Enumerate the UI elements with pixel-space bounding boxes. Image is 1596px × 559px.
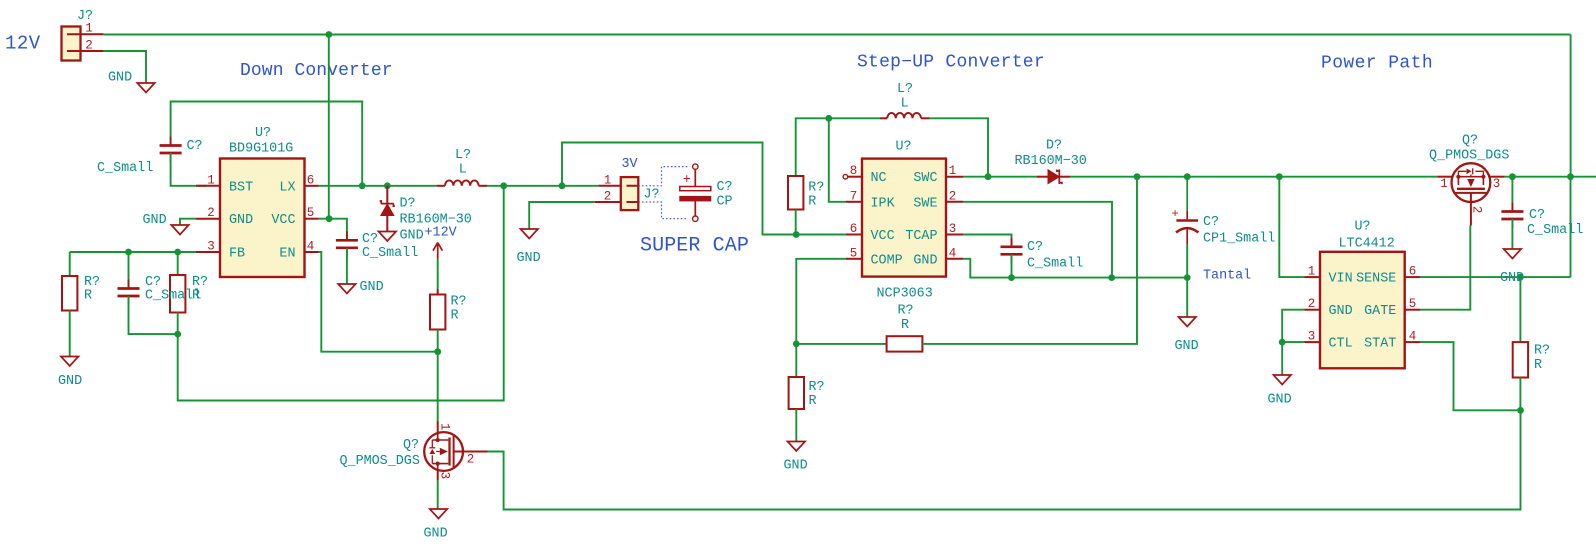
svg-text:C?: C? [187,139,203,154]
capacitor C2 C_Small [128,280,130,306]
junction LX / D1 [384,182,391,189]
wire LX output [319,185,437,187]
svg-text:C_Small: C_Small [97,161,153,176]
capacitor C5 C_Small [1011,238,1013,263]
Q2 pin 2 gate lead [1470,193,1472,226]
svg-text:R: R [808,195,816,210]
svg-text:IPK: IPK [871,196,896,211]
wire C7 top [1511,177,1513,212]
svg-text:D?: D? [1046,139,1062,154]
junction rail / C6 tantal [1184,173,1191,180]
Q2 P-MOSFET Q_PMOS_DGS body [1452,163,1491,202]
svg-text:NCP3063: NCP3063 [877,287,933,302]
U2 pin 1 SWC [946,176,963,178]
wire R4 top to inductor node [796,118,880,176]
svg-text:1: 1 [1308,265,1316,279]
svg-text:C?: C? [1027,240,1043,255]
wire L2 to SWC [930,118,988,176]
ground symbol at R6 [788,442,806,452]
Q1 pin 3 source lead [437,469,439,481]
svg-text:L?: L? [897,82,913,97]
svg-text:1: 1 [85,22,93,36]
wire R4 bottom to VCC node [795,210,797,235]
svg-text:1: 1 [207,173,215,187]
capacitor C6 CP1_Small tantal [1186,177,1188,211]
resistor R3 [430,295,445,330]
U3 pin 5 GATE [1405,309,1421,311]
junction SWC / L2 [985,173,992,180]
wire R7 top [1519,277,1521,342]
wire FB to R1 [69,252,71,276]
svg-text:C_Small: C_Small [362,246,418,261]
svg-text:GND: GND [229,213,253,228]
resistor R6 [789,377,804,409]
svg-text:Down Converter: Down Converter [240,61,393,81]
svg-text:3: 3 [949,222,957,236]
junction rail / comp feedback [1134,173,1141,180]
junction GND/CTL node [1279,339,1286,346]
svg-text:BD9G101G: BD9G101G [229,142,293,157]
svg-text:3: 3 [438,472,452,480]
svg-text:6: 6 [307,173,315,187]
junction feedback bottom node [174,331,181,338]
wire output to SENSE riser [1570,177,1572,277]
svg-text:2: 2 [1308,297,1316,311]
svg-text:Q_PMOS_DGS: Q_PMOS_DGS [1429,149,1509,164]
svg-text:LTC4412: LTC4412 [1339,237,1395,252]
svg-text:C?: C? [1529,208,1545,223]
svg-text:SWC: SWC [913,171,937,186]
svg-text:4: 4 [307,240,315,254]
svg-text:C_Small: C_Small [1527,223,1583,238]
svg-text:L: L [901,97,909,112]
svg-text:C?: C? [1203,215,1219,230]
svg-text:U?: U? [896,140,912,155]
wire VCC to C3 [319,219,347,241]
wire output rail after D2 [1070,176,1437,178]
svg-text:+: + [683,173,691,188]
wire IPK drop [829,118,846,202]
svg-text:RB160M−30: RB160M−30 [1015,154,1087,169]
ground symbol at U3 [1273,375,1291,385]
wire D2 anode lead [1037,176,1048,178]
U3 pin 1 VIN [1305,276,1321,278]
junction LX / BST [359,182,366,189]
wire C5 to ground rail [1011,254,1013,277]
junction output / 12V rail / SENSE [1567,173,1574,180]
svg-text:Step−UP Converter: Step−UP Converter [857,53,1045,73]
wire FB node [70,251,196,253]
svg-text:Tantal: Tantal [1203,269,1251,284]
U1 pin 1 BST [196,185,220,187]
svg-text:VCC: VCC [871,229,895,244]
Q2 pin 3 lead [1490,176,1504,178]
svg-text:1: 1 [1440,177,1448,191]
svg-text:SUPER CAP: SUPER CAP [640,234,749,257]
junction output / feedback [500,182,507,189]
wire comp node to R6 [795,344,797,377]
junction ground rail / C6 [1184,274,1191,281]
wire CTL node to ground [1281,342,1283,374]
svg-text:GND: GND [913,253,937,268]
wire VIN drop [1279,177,1304,277]
svg-text:GATE: GATE [1364,304,1396,319]
svg-text:COMP: COMP [871,253,903,268]
wire Q2 to output [1505,176,1596,178]
U1 pin 6 LX [305,185,319,187]
svg-text:BST: BST [229,180,253,195]
inductor L1 [437,185,445,187]
svg-text:GND: GND [1175,339,1199,354]
svg-text:2: 2 [207,206,215,220]
svg-text:R: R [1534,358,1542,373]
svg-text:+12V: +12V [425,226,457,241]
svg-text:TCAP: TCAP [905,229,937,244]
U3 pin 4 STAT [1405,341,1421,343]
ground symbol at D1 [379,232,397,242]
svg-text:GND: GND [108,71,132,86]
wire BST bootstrap loop [171,102,363,186]
wire J2 pin 2 to ground [529,202,595,229]
wire R3 to gate node [437,330,439,352]
J2 pin 2 [595,201,621,203]
wire COMP loop [796,259,846,344]
U2 pin 8 NC [843,174,848,179]
U2 pin 2 SWE [946,201,963,203]
op-amp U2 NCP3063 body [862,159,946,277]
resistor R2 [170,275,185,313]
svg-text:7: 7 [850,189,858,203]
J1 pin 2 [80,50,104,52]
capacitor C1 bootstrap C_Small [170,137,172,163]
wire 3V rail to NCP VCC [562,143,846,235]
ground symbol at C7 [1504,249,1522,259]
wire U2 GND pin to ground rail [963,259,1187,278]
svg-text:8: 8 [850,164,858,178]
svg-text:1: 1 [604,174,612,188]
svg-text:R: R [84,289,92,304]
U2 pin 5 COMP [846,258,862,260]
ground symbol at R1 [61,357,78,367]
wire D2 cathode lead [1059,176,1070,178]
svg-text:R?: R? [809,380,825,395]
svg-text:1: 1 [949,164,957,178]
junction SENSE / R7 [1517,274,1524,281]
ground symbol at Q1 [430,509,448,519]
svg-text:R: R [809,394,817,409]
wire SWC to diode [963,176,1037,178]
super cap dashed outline [638,167,688,219]
svg-text:CP: CP [717,195,733,210]
svg-text:VCC: VCC [271,213,295,228]
svg-text:GND: GND [424,527,448,542]
svg-text:C_Small: C_Small [1027,257,1083,272]
svg-text:U?: U? [1355,220,1371,235]
U3 pin 2 GND [1305,309,1321,311]
wire C2 bottom to node [129,296,178,334]
svg-text:Power Path: Power Path [1321,54,1433,74]
svg-text:FB: FB [229,247,245,262]
wire gate node to Q1 [437,352,439,421]
wire SWE to ground rail [963,202,1112,278]
U2 pin 6 VCC [846,234,862,236]
svg-text:CP1_Small: CP1_Small [1203,232,1275,247]
wire 12V rail right drop [1570,35,1572,177]
svg-text:SWE: SWE [913,196,937,211]
wire 12V top rail [104,34,1571,36]
svg-text:3: 3 [1308,330,1316,344]
wire STAT out [1420,342,1520,410]
wire C6 to ground [1186,244,1188,317]
junction gate node [434,348,441,355]
junction output / 3V riser [559,182,566,189]
svg-text:C?: C? [717,180,733,195]
wire R5 to rail riser [922,177,1137,344]
svg-text:GND: GND [1329,304,1353,319]
wire D1 anode lead [386,186,388,203]
wire R6 to ground [795,409,797,441]
wire FB to R2 [177,252,179,275]
wire EN pin to gate node [319,252,438,352]
U3 pin 6 SENSE [1405,276,1421,278]
Q1 P-MOSFET Q_PMOS_DGS body [424,432,463,471]
junction L2 / IPK [825,115,832,122]
junction VCC [326,215,333,222]
svg-text:VIN: VIN [1329,272,1353,287]
svg-text:5: 5 [850,246,858,260]
ground symbol at C6 [1178,317,1196,327]
svg-text:2: 2 [604,190,612,204]
junction ground rail / C5 [1008,274,1015,281]
svg-text:2: 2 [467,453,475,467]
svg-text:4: 4 [1409,330,1417,344]
U1 pin 3 FB [196,251,220,253]
wire Q1 drain to bottom rail [488,410,1521,509]
12V input connector J1 [62,27,81,61]
svg-text:6: 6 [850,222,858,236]
svg-text:R?: R? [451,295,467,310]
ground symbol at J1 [137,83,155,93]
wire TCAP to C5 [963,235,1012,246]
capacitor C7 C_Small [1511,203,1513,229]
svg-text:L: L [459,163,467,178]
svg-text:SENSE: SENSE [1356,272,1396,287]
junction FB / C2 [125,249,132,256]
junction output / C7 [1509,173,1516,180]
wire GATE to Q2 gate [1420,226,1470,310]
svg-text:GND: GND [143,213,167,228]
svg-text:2: 2 [85,38,93,52]
svg-text:R?: R? [1534,344,1550,359]
wire R2 bottom to node [177,313,179,335]
wire comp node to R5 [796,343,886,345]
capacitor C4 CP supercap [693,164,698,169]
svg-text:R: R [192,289,200,304]
svg-text:2: 2 [949,189,957,203]
J1 pin 1 [80,33,104,35]
wire Q1 source to ground [437,481,439,509]
svg-text:GND: GND [784,459,808,474]
svg-text:4: 4 [949,246,957,260]
svg-text:R: R [451,309,459,324]
svg-text:U?: U? [255,126,271,141]
svg-text:NC: NC [871,171,887,186]
U1 pin 5 VCC [305,218,319,220]
svg-text:1: 1 [438,423,452,431]
svg-text:6: 6 [1409,265,1417,279]
J2 pin 1 [599,185,621,187]
junction STAT / R7 [1517,407,1524,414]
wire R7 bottom [1519,378,1521,411]
svg-text:STAT: STAT [1364,337,1396,352]
svg-text:3V: 3V [622,157,638,172]
wire R1 to ground [69,311,71,357]
R3 top lead [437,289,439,295]
svg-text:GND: GND [1500,271,1524,286]
svg-text:Q_PMOS_DGS: Q_PMOS_DGS [340,454,420,469]
svg-text:J?: J? [644,188,660,203]
svg-text:GND: GND [517,251,541,266]
junction comp node [793,341,800,348]
+12V power symbol [433,243,442,260]
wire FB to C2 [128,252,130,288]
svg-text:D?: D? [400,197,416,212]
svg-text:2: 2 [1470,206,1484,214]
svg-text:GND: GND [58,374,82,389]
svg-text:GND: GND [400,229,424,244]
svg-text:Q?: Q? [1462,134,1478,149]
wire feedback return to output [178,186,504,401]
wire C7 to ground [1511,219,1513,249]
svg-text:5: 5 [1409,297,1417,311]
ground symbol at J2 [520,229,538,239]
svg-text:GND: GND [1268,393,1292,408]
wire 12V rail down to VCC pin 5 [328,35,330,219]
svg-text:EN: EN [279,247,295,262]
svg-text:+: + [1172,207,1179,221]
op-amp U3 LTC4412 body [1320,252,1405,368]
capacitor C3 C_Small [346,231,348,256]
svg-text:LX: LX [279,180,295,195]
svg-text:R: R [901,318,909,333]
svg-text:3: 3 [1493,177,1501,191]
wire +12V to R3 [437,259,439,289]
wire U1 GND pin to ground [180,219,196,225]
U1 pin 2 GND [196,218,220,220]
junction FB / R2 [174,249,181,256]
resistor R1 [62,276,77,311]
U1 pin 4 EN [305,251,319,253]
wire SENSE line [1420,276,1570,278]
op-amp U1 BD9G101G body [220,159,305,278]
junction NCP VCC / R4 [793,231,800,238]
svg-text:12V: 12V [5,33,41,55]
resistor R5 horizontal [887,336,923,351]
U3 pin 3 CTL [1305,341,1321,343]
Q1 pin 2 drain lead [454,451,488,453]
svg-text:R?: R? [808,181,824,196]
ground symbol at U1 pin 2 [171,225,189,235]
wire L1 to 3V connector [487,185,599,187]
svg-text:Q?: Q? [403,438,419,453]
U2 pin 4 GND [946,258,963,260]
junction top rail / VCC drop [325,31,332,38]
svg-text:3: 3 [207,240,215,254]
wire J1 pin2 to ground [104,51,146,83]
U2 pin 3 TCAP [946,234,963,236]
junction ground rail / SWE [1108,274,1115,281]
Q1 pin 1 gate lead [437,421,439,435]
wire U3 GND to CTL [1282,310,1304,342]
wire C1 to BST pin [171,153,206,186]
3V connector J2 [621,177,639,210]
wire D1 to ground [386,216,388,232]
svg-text:CTL: CTL [1329,337,1353,352]
inductor L2 [880,117,887,119]
resistor R4 [788,176,803,210]
diode D1 RB160M-30 schottky [381,204,394,216]
svg-text:5: 5 [307,206,315,220]
ground symbol at C3 [338,284,356,294]
svg-text:L?: L? [455,148,471,163]
resistor R7 [1513,342,1528,377]
svg-text:GND: GND [360,280,384,295]
U2 pin 7 IPK [846,201,862,203]
svg-text:R?: R? [898,304,914,319]
junction rail / VIN drop [1276,173,1283,180]
svg-text:C?: C? [362,232,378,247]
wire C3 to ground [346,248,348,284]
Q2 pin 1 lead [1437,176,1451,178]
diode D2 RB160M-30 schottky [1048,170,1059,184]
